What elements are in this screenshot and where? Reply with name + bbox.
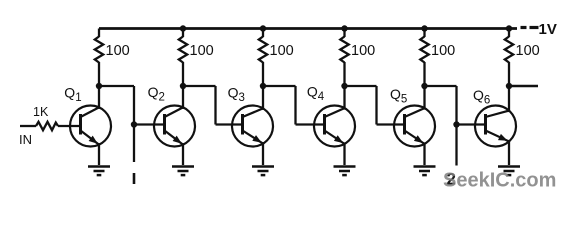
wire rail to R4 bbox=[343, 29, 345, 38]
wire tap 2 down bbox=[455, 125, 457, 166]
node collector Q6 bbox=[506, 83, 512, 89]
svg-text:100: 100 bbox=[351, 43, 375, 59]
transistor Q2 bbox=[154, 106, 195, 147]
svg-text:1K: 1K bbox=[33, 105, 49, 119]
wire base Q3 bbox=[216, 123, 245, 125]
resistor R_in 1K bbox=[36, 122, 58, 130]
wire emitter Q6 bbox=[508, 140, 510, 165]
wire R1 to collector node bbox=[98, 62, 100, 86]
junction rail-R6 bbox=[506, 25, 512, 31]
junction rail-R4 bbox=[341, 25, 347, 31]
wire 1K to base Q1 bbox=[58, 125, 82, 127]
wire collector Q5 bbox=[423, 86, 425, 110]
transistor Q5 bbox=[394, 106, 435, 147]
wire rail to R6 bbox=[508, 29, 510, 38]
svg-text:100: 100 bbox=[270, 43, 294, 59]
svg-text:IN: IN bbox=[19, 132, 32, 147]
wire coupling down to Q2 base bbox=[133, 86, 135, 125]
wire coupling Q1 collector horiz bbox=[99, 85, 134, 87]
wire base Q6 bbox=[457, 123, 488, 125]
transistor Q4 bbox=[314, 106, 355, 147]
svg-text:100: 100 bbox=[190, 43, 214, 59]
wire emitter Q4 bbox=[343, 142, 345, 165]
svg-text:100: 100 bbox=[431, 43, 455, 59]
ground Q4 bbox=[334, 167, 356, 176]
ground Q2 bbox=[172, 167, 194, 176]
transistor Q6 bbox=[475, 106, 516, 147]
node collector Q1 bbox=[96, 83, 102, 89]
ground Q5 bbox=[414, 167, 436, 176]
svg-text:SeekIC.com: SeekIC.com bbox=[443, 170, 556, 192]
ground Q3 bbox=[252, 167, 274, 176]
junction rail-R3 bbox=[260, 25, 266, 31]
wire rail to R2 bbox=[182, 29, 184, 38]
ground Q6 bbox=[498, 167, 520, 176]
label tap terminal 1 bbox=[133, 173, 136, 184]
wire base Q2 bbox=[134, 123, 166, 125]
wire coupling Q5 collector horiz bbox=[425, 85, 457, 87]
wire R5 to collector node bbox=[423, 62, 425, 86]
wire collector Q3 bbox=[262, 86, 264, 110]
resistor R2 100 ohm bbox=[179, 37, 187, 63]
wire coupling down to Q3 base bbox=[214, 86, 216, 125]
wire collector Q1 bbox=[98, 86, 100, 109]
wire base Q4 bbox=[296, 123, 327, 125]
wire R3 to collector node bbox=[262, 62, 264, 86]
wire coupling down to Q4 base bbox=[294, 86, 296, 125]
wire collector Q2 bbox=[182, 86, 184, 109]
wire supply rail +/-1V bbox=[99, 27, 517, 30]
svg-text:1V: 1V bbox=[539, 21, 557, 38]
wire emitter Q5 bbox=[423, 142, 425, 165]
node base Q2 / tap 1 bbox=[131, 121, 137, 127]
wire rail to R5 bbox=[423, 29, 425, 38]
resistor R4 100 ohm bbox=[340, 37, 348, 63]
node collector Q3 bbox=[260, 83, 266, 89]
wire coupling Q3 collector horiz bbox=[263, 85, 296, 87]
wire collector Q4 bbox=[343, 86, 345, 110]
wire coupling down to Q5 base bbox=[375, 86, 377, 125]
resistor R1 100 ohm bbox=[95, 37, 103, 63]
node collector Q4 bbox=[341, 83, 347, 89]
wire rail dash continuation bbox=[521, 26, 527, 29]
transistor Q1 bbox=[70, 106, 111, 147]
resistor R6 100 ohm bbox=[505, 37, 513, 63]
wire rail dash 2 (minus of -1V) bbox=[530, 26, 539, 29]
wire rail to R1 bbox=[98, 29, 100, 38]
resistor R3 100 ohm bbox=[259, 37, 267, 63]
wire coupling Q2 collector horiz bbox=[183, 85, 216, 87]
wire R6 to collector node bbox=[508, 62, 510, 86]
wire coupling down to Q6 base bbox=[455, 86, 457, 125]
wire input IN bbox=[20, 125, 36, 127]
wire coupling Q4 collector horiz bbox=[345, 85, 377, 87]
wire emitter Q1 bbox=[98, 143, 100, 165]
junction rail-R2 bbox=[180, 25, 186, 31]
wire R4 to collector node bbox=[343, 62, 345, 86]
wire collector Q6 bbox=[508, 86, 510, 112]
node base Q6 / tap 2 bbox=[453, 121, 459, 127]
wire output stub from R6 node bbox=[509, 85, 538, 88]
resistor R5 100 ohm bbox=[420, 37, 428, 63]
wire emitter Q2 bbox=[182, 143, 184, 165]
wire R2 to collector node bbox=[182, 62, 184, 86]
junction rail-R5 bbox=[421, 25, 427, 31]
ground Q1 bbox=[88, 167, 110, 176]
svg-text:100: 100 bbox=[516, 43, 540, 59]
wire tap 1 down bbox=[133, 125, 135, 163]
node collector Q5 bbox=[421, 83, 427, 89]
svg-text:100: 100 bbox=[106, 43, 130, 59]
transistor Q3 bbox=[232, 106, 273, 147]
wire base Q5 bbox=[377, 123, 407, 125]
node collector Q2 bbox=[180, 83, 186, 89]
wire rail to R3 bbox=[262, 29, 264, 38]
wire emitter Q3 bbox=[262, 142, 264, 165]
